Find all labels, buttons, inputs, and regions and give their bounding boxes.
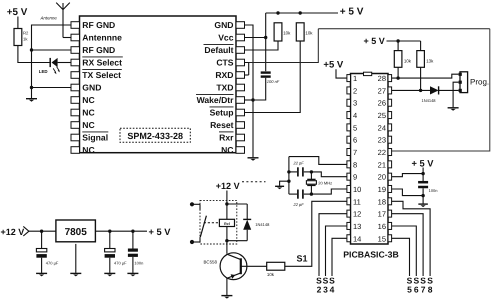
PIC notch bbox=[364, 72, 372, 75]
svg-text:4: 4 bbox=[330, 285, 335, 295]
svg-text:13: 13 bbox=[353, 222, 361, 231]
svg-text:13k: 13k bbox=[426, 58, 434, 63]
svg-text:6: 6 bbox=[414, 285, 419, 295]
svg-text:GND: GND bbox=[214, 20, 233, 30]
junction C4 left bbox=[287, 170, 290, 173]
svg-text:8: 8 bbox=[428, 285, 433, 295]
svg-text:+ 5 V: + 5 V bbox=[364, 36, 385, 46]
long wire RXD/CTS riser bbox=[249, 29, 319, 63]
wire pin27 to diode bbox=[392, 89, 431, 91]
svg-text:22 pF: 22 pF bbox=[293, 202, 305, 207]
junction C2 top bbox=[108, 230, 111, 233]
svg-text:21: 21 bbox=[378, 160, 386, 169]
wire node to ground bbox=[422, 196, 424, 204]
capacitor C5 22pF plates bbox=[297, 190, 299, 199]
wire C5 to pin10 bbox=[311, 189, 347, 194]
+5V feed line upper bbox=[265, 13, 267, 71]
wire 7805 output bbox=[96, 230, 147, 232]
wire Default pin to pullup R3 bbox=[245, 41, 279, 50]
wire crystal ground stub bbox=[280, 181, 289, 186]
svg-text:1N4148: 1N4148 bbox=[422, 98, 437, 103]
ground for module GND line bbox=[248, 157, 259, 159]
svg-text:1N4148: 1N4148 bbox=[255, 222, 270, 227]
svg-text:22: 22 bbox=[378, 148, 386, 157]
connector Prog body bbox=[460, 72, 468, 93]
svg-text:Antennne: Antennne bbox=[82, 32, 122, 42]
wire pin19 to node bbox=[392, 189, 424, 196]
+5V rail top bbox=[266, 12, 338, 14]
module right pin boxes bbox=[236, 22, 245, 29]
ground for 7805 bbox=[70, 272, 81, 274]
svg-text:Rxr: Rxr bbox=[219, 132, 234, 142]
svg-text:Antenne: Antenne bbox=[40, 15, 58, 20]
svg-text:9: 9 bbox=[353, 173, 357, 182]
svg-text:NC: NC bbox=[82, 145, 94, 155]
wire Prog pin2 to ground bbox=[453, 82, 459, 107]
capacitor C4 leads bbox=[289, 171, 297, 173]
wire rail to pin8 bbox=[289, 157, 347, 165]
svg-text:28: 28 bbox=[378, 74, 386, 83]
wire node to cap C6 bbox=[422, 174, 424, 181]
wire node to coil bbox=[226, 204, 228, 219]
ground for module left bbox=[26, 98, 37, 100]
PIC left pin boxes bbox=[347, 75, 351, 82]
wire R8 stub top bbox=[420, 41, 422, 51]
wire R2 to LED bbox=[18, 46, 50, 63]
wire R6 to transistor base bbox=[241, 265, 267, 267]
svg-text:6: 6 bbox=[353, 136, 357, 145]
long wire loop top bbox=[318, 28, 490, 30]
svg-text:27: 27 bbox=[378, 86, 386, 95]
svg-text:10k: 10k bbox=[404, 58, 412, 63]
crystal Q3 20MHz bbox=[310, 172, 312, 179]
resistor R3 10k pullup bbox=[274, 23, 282, 41]
wire R7 stub top bbox=[397, 41, 399, 51]
relay switch lever bbox=[200, 216, 206, 237]
transistor emitter lead bbox=[226, 273, 240, 279]
LED light arrows bbox=[53, 68, 56, 72]
svg-text:+ 5 V: + 5 V bbox=[149, 227, 172, 237]
wire coil top node to diode bbox=[227, 203, 247, 205]
diode D1 1N4148 bbox=[246, 204, 248, 219]
wire +12V down to coil node bbox=[226, 191, 228, 205]
junction GND rail bbox=[30, 86, 33, 89]
resistor R7 10k bbox=[394, 51, 402, 68]
relay dashed outline bbox=[200, 200, 237, 244]
transistor Q1 BC558 circle bbox=[220, 253, 247, 280]
ground for transistor bbox=[221, 295, 232, 297]
wire pin11 to S1 bbox=[285, 201, 347, 266]
crystal left rail bbox=[288, 157, 290, 195]
junction gnd stub bbox=[287, 180, 290, 183]
junction R7 top bbox=[396, 39, 399, 42]
svg-text:470 µF: 470 µF bbox=[114, 261, 127, 266]
transistor collector lead bbox=[226, 254, 240, 260]
wire emitter to ground bbox=[226, 278, 228, 295]
relay switch contacts bbox=[199, 204, 201, 210]
svg-text:14: 14 bbox=[353, 234, 361, 243]
wire GND pin to ground rail bbox=[32, 87, 72, 89]
svg-text:R2: R2 bbox=[23, 31, 29, 36]
junction C4 right bbox=[310, 170, 313, 173]
ground for crystal bbox=[275, 185, 284, 187]
svg-text:Default: Default bbox=[204, 45, 233, 55]
relay coil K1 bbox=[219, 219, 234, 226]
svg-text:470 µF: 470 µF bbox=[46, 261, 59, 266]
regulator 7805 body bbox=[56, 220, 96, 242]
junction C3 top bbox=[131, 230, 134, 233]
capacitor C6 100n plates bbox=[418, 181, 428, 184]
LED D3 triangle bbox=[52, 58, 58, 67]
svg-text:100 nF: 100 nF bbox=[267, 79, 280, 84]
svg-text:NC: NC bbox=[221, 145, 233, 155]
ground for C3 bbox=[127, 272, 138, 274]
svg-text:8: 8 bbox=[353, 160, 357, 169]
junction RF GND row3 bbox=[30, 48, 33, 51]
wire to ground bbox=[31, 88, 33, 99]
wire Vcc pin to +5V line bbox=[245, 37, 266, 39]
resistor R2 bbox=[14, 29, 22, 46]
svg-text:15: 15 bbox=[378, 234, 386, 243]
junction R3 top bbox=[276, 11, 279, 14]
ground for C2 bbox=[104, 272, 115, 274]
svg-text:PICBASIC-3B: PICBASIC-3B bbox=[343, 250, 399, 260]
junction pin19 node bbox=[421, 194, 424, 197]
svg-text:BC558: BC558 bbox=[204, 259, 218, 264]
PIC chip body bbox=[351, 74, 389, 245]
long wire loop right and into pin22 bbox=[392, 29, 490, 151]
svg-text:NC: NC bbox=[82, 95, 94, 105]
junction R8 bottom bbox=[419, 89, 422, 92]
ground for C1 bbox=[36, 272, 47, 274]
wire GND pin to ground line bbox=[245, 25, 254, 157]
LED D3 cathode bar bbox=[49, 58, 51, 67]
svg-text:20 MHz: 20 MHz bbox=[318, 180, 332, 185]
svg-text:7: 7 bbox=[421, 285, 426, 295]
transistor base bar bbox=[240, 258, 242, 274]
relay actuator dashed link bbox=[204, 222, 220, 224]
relay contact terminal lower bbox=[190, 240, 194, 244]
capacitor C5 leads bbox=[289, 193, 297, 195]
wire pin20 to +5V node bbox=[392, 174, 424, 177]
capacitor C1 470uF bbox=[41, 231, 43, 248]
wire pin14 to S4 bbox=[332, 238, 347, 276]
junction C5 right bbox=[310, 192, 313, 195]
svg-text:Signal: Signal bbox=[82, 132, 108, 142]
wire pin16 to S6 bbox=[392, 226, 417, 276]
svg-text:12: 12 bbox=[353, 210, 361, 219]
wire 7805 to ground bbox=[75, 244, 77, 273]
svg-text:+5 V: +5 V bbox=[323, 60, 343, 71]
svg-text:20: 20 bbox=[378, 173, 386, 182]
junction coil top bbox=[225, 202, 228, 205]
junction GND/WakeDtr/cap node bbox=[251, 98, 254, 101]
svg-text:NC: NC bbox=[82, 107, 94, 117]
resistor R8 13k bbox=[417, 51, 425, 68]
svg-text:3: 3 bbox=[323, 285, 328, 295]
svg-text:16: 16 bbox=[378, 222, 386, 231]
svg-text:4: 4 bbox=[353, 111, 357, 120]
capacitor C4 22pF plates bbox=[297, 167, 299, 176]
svg-text:+12 V: +12 V bbox=[216, 181, 240, 191]
svg-text:3: 3 bbox=[353, 99, 357, 108]
svg-text:RF GND: RF GND bbox=[82, 20, 115, 30]
svg-text:24: 24 bbox=[378, 123, 386, 132]
svg-text:+5 V: +5 V bbox=[7, 7, 28, 18]
svg-text:GND: GND bbox=[82, 82, 101, 92]
svg-text:Setup: Setup bbox=[210, 107, 234, 117]
svg-text:10k: 10k bbox=[305, 30, 313, 35]
svg-text:25: 25 bbox=[378, 111, 386, 120]
wire C6 to lower node bbox=[422, 188, 424, 195]
wire Wake/Dtr pin to node bbox=[245, 99, 254, 101]
junction coil bottom bbox=[225, 239, 228, 242]
svg-text:+ 5 V: + 5 V bbox=[340, 6, 364, 17]
svg-text:RXD: RXD bbox=[215, 70, 233, 80]
svg-text:22 pF: 22 pF bbox=[293, 161, 305, 166]
svg-text:10k: 10k bbox=[267, 272, 275, 277]
input connector chevron bbox=[23, 226, 29, 236]
junction R4 top bbox=[299, 11, 302, 14]
wire pin15 to S5 bbox=[392, 238, 410, 276]
wire +5V to R2 bbox=[17, 17, 19, 29]
connector Prog pins bbox=[459, 73, 462, 76]
wire RF GND row3 pin to ground rail bbox=[32, 49, 72, 51]
junction Vcc node bbox=[264, 36, 267, 39]
wire +12V to 7805 bbox=[29, 230, 56, 232]
ground for C6 bbox=[418, 203, 428, 205]
wire +5V to resistors bbox=[387, 40, 421, 42]
module SPM2-433-28 body bbox=[80, 16, 237, 153]
module left pin boxes bbox=[71, 22, 80, 29]
svg-text:5: 5 bbox=[353, 123, 357, 132]
svg-text:10: 10 bbox=[353, 185, 361, 194]
transistor emitter arrow bbox=[231, 274, 236, 278]
svg-text:18: 18 bbox=[378, 197, 386, 206]
wire R8 bottom bbox=[420, 67, 422, 90]
wire diode to Prog pin3 bbox=[439, 89, 459, 91]
wire R7 bottom bbox=[397, 67, 399, 78]
resistor R4 10k pullup bbox=[296, 23, 304, 41]
svg-text:7805: 7805 bbox=[65, 227, 88, 238]
svg-text:7: 7 bbox=[353, 148, 357, 157]
svg-text:LED: LED bbox=[39, 69, 48, 74]
resistor R6 10k base bbox=[267, 262, 285, 270]
svg-text:23: 23 bbox=[378, 136, 386, 145]
antenna symbol bbox=[56, 3, 70, 38]
junction C1 top bbox=[40, 230, 43, 233]
wire pin17 to S7 bbox=[392, 214, 424, 276]
svg-text:S1: S1 bbox=[297, 253, 308, 263]
svg-text:Reset: Reset bbox=[210, 120, 234, 130]
svg-text:+ 5 V: + 5 V bbox=[412, 158, 435, 168]
svg-text:+12 V: +12 V bbox=[1, 227, 25, 237]
svg-text:RF GND: RF GND bbox=[82, 45, 115, 55]
svg-text:26: 26 bbox=[378, 99, 386, 108]
wire pin28 to Prog pin1 bbox=[392, 74, 459, 78]
svg-text:10k: 10k bbox=[283, 30, 291, 35]
diode D2 1N4148 bbox=[430, 86, 439, 94]
wire C4 to pin9 bbox=[311, 172, 347, 177]
svg-text:2: 2 bbox=[353, 86, 357, 95]
junction R7 bottom bbox=[396, 76, 399, 79]
relay contact terminal upper bbox=[190, 202, 194, 206]
svg-text:100n: 100n bbox=[429, 188, 438, 193]
wire coil to bottom node bbox=[226, 227, 228, 241]
wire +5V to pin1 bbox=[336, 69, 347, 78]
svg-text:Prog.: Prog. bbox=[470, 78, 489, 87]
svg-text:11: 11 bbox=[353, 197, 361, 206]
wire pin12 to S2 bbox=[319, 214, 347, 276]
wire +5V down to node bbox=[422, 168, 424, 174]
svg-text:CTS: CTS bbox=[216, 57, 233, 67]
svg-text:TXD: TXD bbox=[216, 82, 233, 92]
svg-text:19: 19 bbox=[378, 185, 386, 194]
capacitor 100nF plates bbox=[261, 71, 271, 73]
wire CTS pin jog bbox=[245, 63, 249, 76]
wire antenna to Antennne pin bbox=[63, 37, 71, 39]
svg-text:100n: 100n bbox=[134, 261, 143, 266]
dashes after +12V bbox=[242, 181, 266, 183]
wire pin13 to S3 bbox=[326, 226, 347, 276]
svg-text:NC: NC bbox=[82, 120, 94, 130]
wire diode bottom to node bbox=[227, 240, 247, 242]
ground for Prog bbox=[448, 107, 459, 109]
svg-text:Rel: Rel bbox=[224, 222, 230, 226]
wire pin18 to S8 bbox=[392, 201, 431, 276]
svg-text:1: 1 bbox=[353, 74, 357, 83]
junction pin20 node bbox=[421, 172, 424, 175]
module dashed label box bbox=[120, 128, 190, 142]
svg-text:5: 5 bbox=[407, 285, 412, 295]
capacitor C2 470uF bbox=[109, 231, 111, 248]
capacitor 100nF lower lead bbox=[253, 78, 266, 100]
wire node to transistor collector bbox=[226, 241, 228, 254]
svg-text:17: 17 bbox=[378, 210, 386, 219]
svg-text:RX Select: RX Select bbox=[82, 57, 122, 67]
svg-text:2: 2 bbox=[317, 285, 322, 295]
svg-text:Vcc: Vcc bbox=[218, 32, 234, 42]
svg-text:TX Select: TX Select bbox=[82, 70, 121, 80]
svg-text:Wake/Dtr: Wake/Dtr bbox=[197, 95, 235, 105]
wire RXD pin bbox=[245, 74, 249, 76]
svg-text:SPM2-433-28: SPM2-433-28 bbox=[127, 131, 183, 141]
wire R4 to Setup pin bbox=[245, 41, 301, 113]
capacitor C3 100n bbox=[132, 231, 134, 248]
wire LED to RX Select pin bbox=[58, 62, 71, 64]
PIC right pin boxes bbox=[388, 75, 392, 82]
wire RF GND pin to ground rail bbox=[32, 25, 72, 88]
